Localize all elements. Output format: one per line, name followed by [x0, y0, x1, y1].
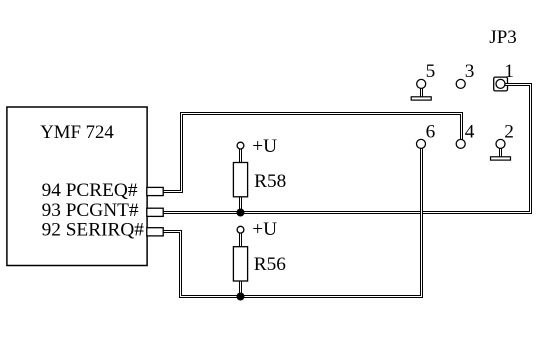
svg-text:R56: R56 — [254, 254, 287, 275]
svg-text:3: 3 — [465, 61, 475, 82]
svg-text:YMF 724: YMF 724 — [40, 122, 114, 143]
svg-text:93 PCGNT#: 93 PCGNT# — [42, 200, 139, 221]
svg-text:R58: R58 — [254, 171, 286, 192]
svg-text:1: 1 — [504, 61, 514, 82]
svg-text:94 PCREQ#: 94 PCREQ# — [42, 180, 138, 201]
svg-text:92 SERIRQ#: 92 SERIRQ# — [42, 220, 145, 241]
svg-text:5: 5 — [426, 61, 436, 82]
svg-text:+U: +U — [252, 136, 277, 157]
svg-text:6: 6 — [426, 121, 436, 142]
svg-text:+U: +U — [252, 219, 277, 240]
svg-text:4: 4 — [465, 121, 475, 142]
svg-text:2: 2 — [504, 121, 514, 142]
svg-text:JP3: JP3 — [489, 27, 516, 48]
